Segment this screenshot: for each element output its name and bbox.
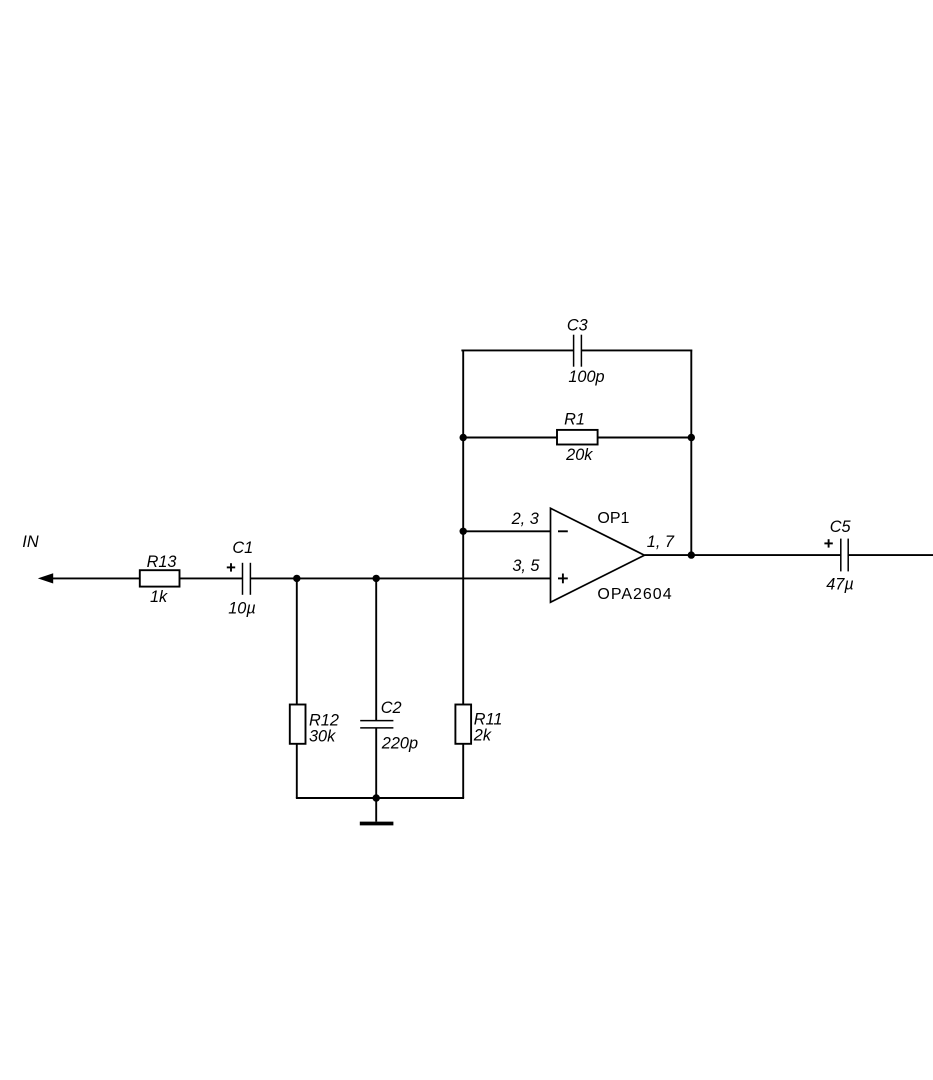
svg-text:C1: C1 [232, 539, 253, 557]
svg-text:OP1: OP1 [597, 510, 629, 527]
wire output to right edge [848, 554, 933, 556]
capacitor C2 [360, 699, 401, 728]
svg-text:2k: 2k [473, 727, 492, 745]
wire feedback top segment right [581, 349, 692, 351]
svg-text:100p: 100p [568, 368, 604, 386]
svg-text:20k: 20k [565, 446, 593, 464]
capacitor C1 [227, 539, 253, 595]
svg-text:OPA2604: OPA2604 [597, 586, 672, 603]
wire R1 row left [463, 437, 557, 439]
svg-text:1, 7: 1, 7 [647, 533, 675, 551]
svg-text:IN: IN [22, 533, 39, 551]
junction dot feedback right at R1 [688, 434, 695, 441]
op-amp U1 triangle [551, 508, 645, 602]
resistor R1 [557, 411, 598, 445]
junction dot at C2 tap [373, 575, 380, 582]
svg-text:R1: R1 [564, 411, 585, 429]
junction dot at output [688, 551, 695, 558]
svg-text:2, 3: 2, 3 [511, 510, 539, 528]
junction dot inverting input [460, 528, 467, 535]
wire junction down to C2 [375, 578, 377, 721]
svg-text:1k: 1k [150, 588, 168, 606]
capacitor C5 [824, 518, 851, 571]
ground [360, 822, 394, 826]
junction dot at ground rail [373, 794, 380, 801]
wire feedback right vertical [690, 350, 692, 555]
svg-text:C2: C2 [381, 699, 402, 717]
svg-text:3, 5: 3, 5 [512, 557, 540, 575]
resistor R13 [140, 553, 180, 586]
wire R13 to C1 [180, 577, 243, 579]
svg-text:47µ: 47µ [826, 575, 854, 593]
svg-text:C5: C5 [830, 518, 852, 536]
svg-text:30k: 30k [309, 728, 336, 746]
resistor R11 [455, 705, 502, 744]
wire ground rail [296, 797, 464, 799]
wire ground stub [375, 798, 377, 822]
wire op-amp output [644, 554, 840, 556]
node IN [22, 533, 39, 551]
capacitor C3 [567, 317, 588, 367]
junction dot at R12 tap [293, 575, 300, 582]
wire feedback top segment left [461, 349, 573, 351]
wire IN arrow [38, 573, 140, 583]
svg-text:C3: C3 [567, 317, 588, 335]
junction dot feedback left at R1 [460, 434, 467, 441]
wire R12 to ground rail [296, 744, 298, 798]
wire C2 to ground rail [375, 728, 377, 798]
wire R11 to ground rail [462, 744, 464, 798]
svg-text:R13: R13 [147, 553, 177, 571]
wire R1 row right [598, 437, 692, 439]
wire inverting net vertical (feedback left leg down to R11) [462, 350, 464, 705]
wire C1 to op-amp noninverting input [250, 577, 550, 579]
wire junction down to R12 [296, 578, 298, 705]
svg-text:10µ: 10µ [228, 599, 256, 617]
resistor R12 [290, 705, 339, 744]
svg-text:220p: 220p [381, 734, 418, 752]
wire inverting input stub [463, 530, 550, 532]
